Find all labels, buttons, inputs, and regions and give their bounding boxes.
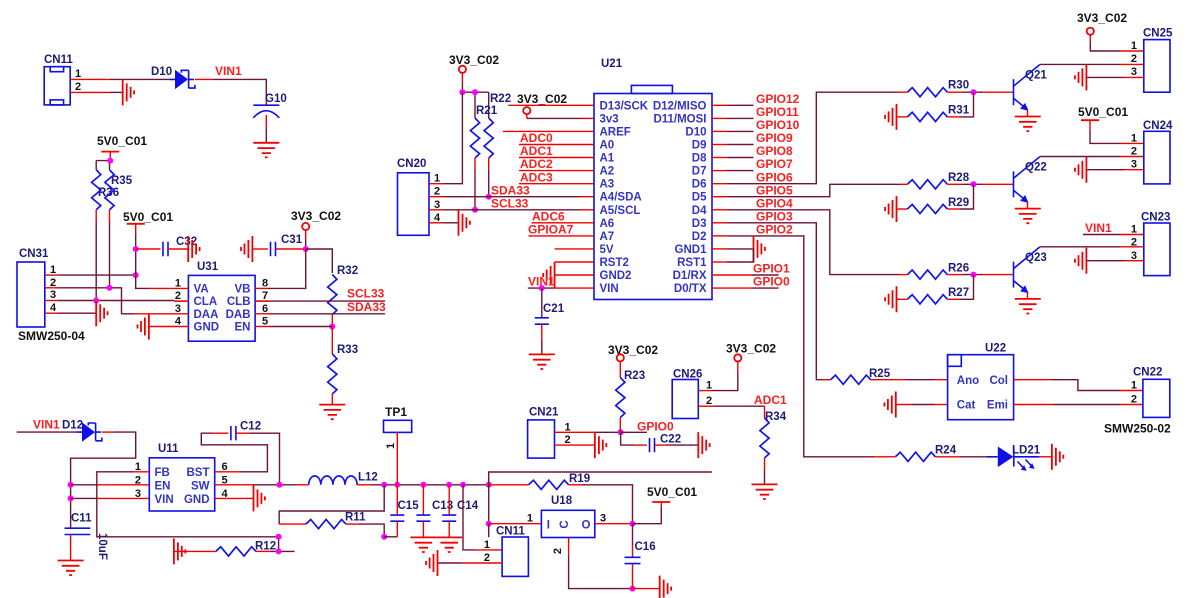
svg-text:5V0_C01: 5V0_C01 <box>647 485 697 499</box>
net GPIO0 <box>621 419 674 433</box>
ground left of U22 Cat <box>884 392 895 418</box>
svg-text:CN20: CN20 <box>397 158 426 170</box>
svg-text:Col: Col <box>989 375 1008 387</box>
ground under G10 <box>253 143 279 158</box>
svg-text:R31: R31 <box>948 105 970 117</box>
svg-text:GPIO5: GPIO5 <box>756 183 793 197</box>
wire LD21 to ground <box>1039 456 1052 458</box>
svg-text:A4/SDA: A4/SDA <box>600 192 642 204</box>
svg-text:C14: C14 <box>457 500 479 512</box>
power 5V0_C01 (at U18 out) <box>647 485 697 507</box>
wire GPIO0 node to C22 <box>621 432 647 445</box>
svg-text:CN23: CN23 <box>1141 212 1170 224</box>
svg-text:D2: D2 <box>692 231 707 243</box>
svg-text:C32: C32 <box>176 236 197 248</box>
resistor R29 <box>897 197 970 214</box>
svg-text:D13/SCK: D13/SCK <box>600 100 649 112</box>
svg-text:A7: A7 <box>600 231 615 243</box>
power 5V0_C01 (above R35/R36) <box>97 134 147 161</box>
net VIN1 at CN23 pin1 <box>1083 221 1144 235</box>
svg-text:EN: EN <box>235 322 251 334</box>
svg-text:VA: VA <box>194 283 209 295</box>
svg-text:3: 3 <box>1131 66 1137 78</box>
svg-text:4: 4 <box>175 316 182 328</box>
wire VIN row / net VIN1 <box>528 275 594 291</box>
connector CN11 (top-left) <box>44 54 81 105</box>
svg-text:3V3_C02: 3V3_C02 <box>291 209 341 223</box>
connector CN25 <box>1131 28 1173 93</box>
wire CN31 pin3 to CLA <box>45 298 174 304</box>
svg-text:R11: R11 <box>345 512 366 524</box>
svg-text:D0/TX: D0/TX <box>674 283 707 295</box>
net GPIO8 <box>712 144 793 158</box>
svg-text:3: 3 <box>1131 159 1137 171</box>
wire VIN row <box>71 497 150 499</box>
svg-text:C22: C22 <box>660 434 681 446</box>
svg-text:3: 3 <box>600 513 606 525</box>
svg-text:SDA33: SDA33 <box>491 183 530 197</box>
wire RST1 tie to GND1 <box>712 249 754 262</box>
resistor R28 <box>907 172 969 189</box>
svg-text:6: 6 <box>262 303 268 315</box>
svg-text:R19: R19 <box>569 473 590 485</box>
svg-text:CLB: CLB <box>227 296 251 308</box>
svg-text:3: 3 <box>50 289 56 301</box>
svg-text:A0: A0 <box>600 140 615 152</box>
wire CN26 pin2 / net ADC1 <box>698 393 787 407</box>
svg-text:3v3: 3v3 <box>600 113 619 125</box>
wire D4 / net GPIO4 to R26 <box>712 196 907 274</box>
svg-text:1: 1 <box>527 513 533 525</box>
svg-text:C13: C13 <box>432 500 453 512</box>
svg-text:A2: A2 <box>600 166 615 178</box>
svg-text:D12/MISO: D12/MISO <box>653 100 707 112</box>
svg-text:R24: R24 <box>935 445 957 457</box>
svg-text:RST2: RST2 <box>600 257 629 269</box>
connector CN24 <box>1131 120 1173 184</box>
svg-text:D5: D5 <box>692 192 707 204</box>
resistor R34 (vertical) <box>760 406 787 484</box>
svg-text:GPIO4: GPIO4 <box>756 196 793 210</box>
wire R22 bottom to SDA row <box>486 158 492 200</box>
net GPIO7 <box>712 157 793 171</box>
resistor R33 (vertical) <box>328 327 358 405</box>
svg-text:4: 4 <box>434 212 441 224</box>
wire A3 / net ADC3 <box>519 170 594 184</box>
ground left of R29 <box>885 196 896 222</box>
svg-text:1: 1 <box>1131 380 1137 392</box>
net GPIO0 <box>712 275 790 289</box>
svg-text:Q23: Q23 <box>1025 252 1047 264</box>
wire 3V3 rail to R21/R22 tops <box>459 89 488 118</box>
svg-text:D10: D10 <box>151 66 172 78</box>
svg-text:1: 1 <box>1131 224 1137 236</box>
wire CN20 pin3 / SCL33 to A5 <box>429 196 594 210</box>
ground at CN11 pin2 <box>123 79 134 105</box>
ground at CN21 pin2 <box>595 432 606 458</box>
wire R28 to Q22 base <box>947 181 1013 187</box>
junction at C31 right <box>303 246 309 252</box>
svg-text:SMW250-04: SMW250-04 <box>18 329 85 343</box>
svg-text:GPIO6: GPIO6 <box>756 170 793 184</box>
ground right of LD21 <box>1052 444 1063 470</box>
svg-text:GPIO8: GPIO8 <box>756 144 793 158</box>
svg-text:CN24: CN24 <box>1143 120 1173 132</box>
wire U18 pin1 node <box>486 485 542 537</box>
wire R36 bottom to pin3 row <box>95 210 97 301</box>
svg-text:5: 5 <box>262 316 268 328</box>
svg-text:8: 8 <box>262 277 268 289</box>
svg-text:CN25: CN25 <box>1143 28 1173 40</box>
wire U31 pin1 VA red stub <box>149 287 188 289</box>
svg-text:3: 3 <box>175 303 181 315</box>
wire DAB / net SDA33 <box>255 300 386 314</box>
svg-text:C11: C11 <box>71 513 92 525</box>
transistor Q22 <box>1014 157 1047 209</box>
svg-text:EN: EN <box>155 480 171 492</box>
net GPIO1 <box>712 262 790 276</box>
resistor R31 <box>897 105 970 122</box>
wire EN row <box>71 484 150 486</box>
ground at GND2 <box>543 262 554 288</box>
diode D10 <box>151 66 195 89</box>
wire 5V stub <box>555 248 594 250</box>
wire CN31 pin4 to ground <box>45 312 96 314</box>
svg-text:3: 3 <box>135 488 141 500</box>
power 3V3_C02 (at U21 3v3 pin) <box>517 92 594 118</box>
svg-text:L12: L12 <box>358 472 378 484</box>
net GPIO10 <box>712 118 800 132</box>
wire A1 / net ADC1 <box>519 144 594 158</box>
wire U11 GND pin to ground <box>215 497 254 499</box>
capacitor C12 <box>201 421 279 485</box>
inductor L12 <box>309 472 378 485</box>
svg-text:A5/SCL: A5/SCL <box>600 205 641 217</box>
svg-text:BST: BST <box>187 467 210 479</box>
svg-text:R32: R32 <box>337 265 358 277</box>
svg-text:R30: R30 <box>948 80 969 92</box>
power 3V3_C02 (above R23) <box>608 343 658 378</box>
capacitor C16 <box>625 524 656 589</box>
wire FB line to C15 bottom <box>384 536 397 538</box>
power 3V3_C02 (above C31) <box>291 209 341 249</box>
ground at CN20 pin4 <box>459 210 470 236</box>
IC U22 (opto) <box>948 343 1014 420</box>
capacitor C21 <box>535 288 565 354</box>
svg-text:CN31: CN31 <box>19 248 49 260</box>
svg-text:LD21: LD21 <box>1012 445 1041 457</box>
svg-text:D9: D9 <box>692 140 707 152</box>
svg-text:VIN: VIN <box>600 283 619 295</box>
resistor R23 (vertical) <box>616 370 645 432</box>
wire CN20 pin1 to 3V3 rail <box>429 92 462 184</box>
ground right of C22 <box>698 432 709 458</box>
IC U11 <box>135 443 229 511</box>
wire SW to L12 <box>215 482 309 488</box>
wire R35 bottom to pin2 row <box>109 210 111 288</box>
wire Q22 collector to CN24 pin2 <box>1040 156 1144 158</box>
svg-text:2: 2 <box>1131 237 1137 249</box>
capacitor C11 <box>65 513 109 561</box>
svg-text:D10: D10 <box>685 126 706 138</box>
wire D10 to G10 corner <box>195 79 266 105</box>
svg-text:R23: R23 <box>624 370 645 382</box>
transistor Q23 <box>1014 247 1047 299</box>
wire D3 / net GPIO3 to R25 <box>712 209 831 379</box>
ground at U31 GND <box>138 314 149 340</box>
ground under C21 <box>529 354 555 369</box>
svg-text:ADC1: ADC1 <box>520 144 553 158</box>
ground at CN25 pin3 <box>1075 64 1086 90</box>
svg-text:3V3_C02: 3V3_C02 <box>517 92 567 106</box>
capacitor C14 <box>442 485 479 538</box>
svg-text:U18: U18 <box>551 495 573 507</box>
wire CN21 pin2 to ground <box>555 444 595 446</box>
svg-text:A6: A6 <box>600 218 615 230</box>
svg-text:D6: D6 <box>692 179 707 191</box>
svg-text:GPIO10: GPIO10 <box>756 118 800 132</box>
resistor R32 (vertical) <box>328 265 358 315</box>
transistor Q21 <box>1014 65 1048 117</box>
svg-text:5V0_C01: 5V0_C01 <box>123 210 173 224</box>
svg-text:3V3_C02: 3V3_C02 <box>449 53 499 67</box>
svg-text:CN11: CN11 <box>496 526 525 538</box>
svg-text:R29: R29 <box>948 197 969 209</box>
svg-text:2: 2 <box>175 290 181 302</box>
wire Q21 collector to CN25 pin2 <box>1040 63 1144 65</box>
svg-text:1: 1 <box>1131 132 1137 144</box>
net GPIO12 <box>712 92 800 106</box>
svg-text:Cat: Cat <box>957 400 976 412</box>
svg-text:VB: VB <box>235 283 251 295</box>
svg-text:Ano: Ano <box>957 375 979 387</box>
capacitor C32 <box>136 236 197 256</box>
resistor R24 <box>895 445 956 462</box>
svg-text:GPIO2: GPIO2 <box>756 223 793 237</box>
resistor R22 (vertical) <box>484 93 511 158</box>
svg-text:SCL33: SCL33 <box>491 196 529 210</box>
ground right of C32 <box>188 236 199 262</box>
wire D6 / net GPIO6 to Q21 <box>712 92 907 184</box>
ground at bottom rail <box>660 576 671 598</box>
svg-text:4: 4 <box>50 302 57 314</box>
svg-text:C16: C16 <box>635 541 656 553</box>
wire R29 to R28 junction <box>947 184 973 209</box>
wire RST2/GND2 tie <box>555 262 594 288</box>
wire into D12 <box>17 431 77 433</box>
ground at CN23 pin3 <box>1075 248 1086 274</box>
svg-text:CLA: CLA <box>194 296 218 308</box>
connector CN23 <box>1131 212 1171 276</box>
svg-text:U21: U21 <box>601 58 623 70</box>
svg-text:U11: U11 <box>158 443 179 455</box>
wire U31 pin3 DAA red stub <box>134 313 188 315</box>
LED LD21 <box>987 445 1041 471</box>
svg-text:VIN1: VIN1 <box>33 418 60 432</box>
svg-text:1: 1 <box>434 173 440 185</box>
svg-text:1: 1 <box>175 277 181 289</box>
ground at CN11(bottom) pin2 <box>426 550 437 576</box>
svg-text:D12: D12 <box>62 420 83 432</box>
connector CN31 <box>17 248 85 343</box>
svg-text:G10: G10 <box>265 93 287 105</box>
connector CN11 (bottom) <box>484 526 529 577</box>
power 5V0_C01 (above CN24) <box>1078 105 1144 143</box>
ground at CN24 pin3 <box>1075 157 1086 183</box>
svg-text:7: 7 <box>262 290 268 302</box>
resistor R26 <box>907 263 969 280</box>
wire CN25 pin3 to ground <box>1086 76 1143 78</box>
net GPIO11 <box>712 105 799 119</box>
ground under Q22 <box>1015 209 1041 224</box>
svg-text:RST1: RST1 <box>677 257 707 269</box>
wire Q23 collector to CN23 pin2 <box>1040 246 1144 248</box>
svg-text:ADC3: ADC3 <box>520 170 553 184</box>
svg-text:3V3_C02: 3V3_C02 <box>1077 11 1127 25</box>
capacitor C15 <box>390 485 419 537</box>
svg-text:GPIO3: GPIO3 <box>756 209 793 223</box>
svg-text:ADC2: ADC2 <box>520 157 553 171</box>
ground at GND1 <box>754 236 765 262</box>
svg-text:R35: R35 <box>111 175 133 187</box>
wire D12 to U11 VIN jog <box>68 432 136 528</box>
wire CN20 pin2 / SDA33 to A4 <box>429 183 594 197</box>
svg-text:VIN1: VIN1 <box>215 64 242 78</box>
wire VOUT upper line <box>489 472 712 485</box>
wire G10 to ground <box>265 115 267 143</box>
ground under Q21 <box>1015 117 1041 132</box>
svg-text:GPIO1: GPIO1 <box>753 262 790 276</box>
wire 5V rail to R35/R36 tops <box>96 161 110 170</box>
wire CN11 pin1 to D10 <box>70 78 169 80</box>
svg-text:3V3_C02: 3V3_C02 <box>608 343 658 357</box>
svg-text:5V0_C01: 5V0_C01 <box>1078 105 1128 119</box>
wire U31 pin2 CLA red stub <box>174 300 188 302</box>
svg-text:D3: D3 <box>692 218 707 230</box>
capacitor C31 <box>252 234 305 256</box>
wire CN24 pin3 to ground <box>1086 169 1143 171</box>
connector CN20 <box>397 158 441 235</box>
svg-text:GPIOA7: GPIOA7 <box>528 223 574 237</box>
svg-text:R27: R27 <box>948 287 969 299</box>
svg-text:5V0_C01: 5V0_C01 <box>97 134 147 148</box>
wire AREF stub <box>503 130 594 132</box>
wire A0 / net ADC0 <box>519 131 594 145</box>
svg-text:U31: U31 <box>197 261 219 273</box>
svg-text:5V: 5V <box>600 244 614 256</box>
ground at CN31 pin4 <box>96 300 107 326</box>
wire VB to 3V3 node <box>255 249 306 288</box>
ground under C11 <box>58 561 84 576</box>
wire R30 to Q21 base <box>947 89 1013 95</box>
svg-text:R33: R33 <box>337 344 358 356</box>
capacitor C22 <box>650 434 699 453</box>
svg-text:GPIO12: GPIO12 <box>756 92 800 106</box>
svg-text:1: 1 <box>484 539 490 551</box>
test point TP1 <box>384 405 412 485</box>
svg-text:U22: U22 <box>985 343 1006 355</box>
wire GND1 to ground <box>712 248 754 250</box>
svg-text:1: 1 <box>135 461 141 473</box>
ground left of C31 <box>241 236 252 262</box>
svg-text:R28: R28 <box>948 172 970 184</box>
svg-text:1: 1 <box>385 443 397 449</box>
svg-text:3V3_C02: 3V3_C02 <box>726 342 776 356</box>
svg-text:SDA33: SDA33 <box>347 300 386 314</box>
wire U18 pin2 to bottom rail <box>569 538 660 592</box>
svg-text:2: 2 <box>565 434 571 446</box>
junction <box>107 158 113 164</box>
svg-text:CN21: CN21 <box>529 407 559 419</box>
svg-text:Emi: Emi <box>987 400 1008 412</box>
svg-text:D1/RX: D1/RX <box>673 270 707 282</box>
resistor R11 loop <box>279 485 387 540</box>
wire CN31 pin2 to DAA jog <box>45 285 134 314</box>
svg-text:1: 1 <box>1131 40 1137 52</box>
wire A6 / net ADC6 <box>532 209 594 223</box>
svg-text:2: 2 <box>1131 146 1137 158</box>
svg-text:2: 2 <box>1131 394 1137 406</box>
power 3V3_C02 (above CN26) <box>698 342 776 391</box>
resistor R36 (vertical) <box>92 170 120 210</box>
wire D5 / net GPIO5 to R28 <box>712 183 907 197</box>
svg-text:C15: C15 <box>398 500 420 512</box>
wire U18 pin3 node <box>595 507 662 527</box>
svg-text:ADC6: ADC6 <box>532 209 565 223</box>
svg-text:DAA: DAA <box>194 309 219 321</box>
wire A2 / net ADC2 <box>519 157 594 171</box>
svg-text:TP1: TP1 <box>385 405 407 419</box>
svg-text:1: 1 <box>565 421 571 433</box>
svg-text:VIN: VIN <box>155 494 174 506</box>
svg-text:3: 3 <box>434 199 440 211</box>
svg-text:CN22: CN22 <box>1133 367 1162 379</box>
svg-text:C12: C12 <box>240 421 261 433</box>
net GPIO9 <box>712 131 793 145</box>
svg-text:R25: R25 <box>869 368 891 380</box>
power 3V3_C02 (above CN20) <box>449 53 499 92</box>
wire 3V3 node to R32 top <box>306 249 333 273</box>
ground under R34 <box>752 484 778 499</box>
wire FB to divider <box>97 472 279 537</box>
wire CN20 pin4 to ground <box>429 222 459 224</box>
wire R24 to LD21 <box>935 456 987 458</box>
svg-text:GPIO9: GPIO9 <box>756 131 793 145</box>
wire CN11(bottom) pin2 to ground <box>438 562 503 564</box>
wire CN11 pin2 <box>70 91 123 93</box>
ground under R33 <box>319 405 345 420</box>
svg-text:1: 1 <box>706 380 712 392</box>
svg-text:2: 2 <box>75 81 81 93</box>
svg-text:GND: GND <box>194 322 220 334</box>
wire A7 / net GPIOA7 <box>528 223 594 237</box>
wire U22 Emi to CN22 pin2 <box>1014 404 1143 406</box>
wire U31 pin4 GND to ground <box>149 326 189 328</box>
svg-text:2: 2 <box>706 395 712 407</box>
svg-text:R26: R26 <box>948 263 969 275</box>
svg-text:GPIO0: GPIO0 <box>637 419 674 433</box>
wire CLB / net SCL33 <box>174 300 188 302</box>
power 5V0_C01 (above C32) <box>123 210 173 288</box>
svg-text:Q22: Q22 <box>1025 162 1047 174</box>
resistor R35 (vertical) <box>105 170 133 210</box>
svg-text:2: 2 <box>484 552 490 564</box>
svg-text:O: O <box>582 520 591 532</box>
ground at U11 GND <box>254 485 265 511</box>
svg-text:2: 2 <box>434 186 440 198</box>
svg-text:6: 6 <box>222 461 228 473</box>
svg-text:DAB: DAB <box>226 309 251 321</box>
